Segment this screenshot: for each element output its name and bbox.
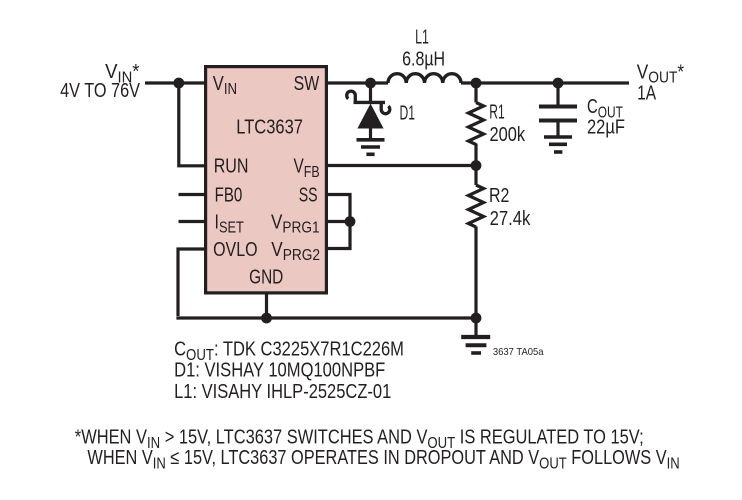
svg-text:L1: VISAHY IHLP-2525CZ-01: L1: VISAHY IHLP-2525CZ-01: [174, 380, 391, 403]
svg-text:RUN: RUN: [214, 155, 249, 177]
svg-text:FB0: FB0: [215, 183, 243, 206]
svg-text:1A: 1A: [637, 82, 656, 104]
svg-text:SS: SS: [299, 183, 318, 206]
svg-text:R2: R2: [489, 185, 509, 207]
svg-text:D1: D1: [400, 101, 415, 124]
svg-text:L1: L1: [415, 25, 429, 48]
svg-text:GND: GND: [249, 265, 283, 287]
svg-text:3637 TA05a: 3637 TA05a: [493, 347, 544, 358]
svg-text:OVLO: OVLO: [213, 238, 257, 260]
svg-text:27.4k: 27.4k: [490, 207, 531, 230]
svg-text:4V TO 76V: 4V TO 76V: [60, 78, 141, 101]
svg-text:D1: VISHAY 10MQ100NPBF: D1: VISHAY 10MQ100NPBF: [174, 358, 385, 381]
svg-text:LTC3637: LTC3637: [236, 115, 303, 138]
svg-text:SW: SW: [294, 72, 320, 94]
svg-text:22µF: 22µF: [587, 115, 625, 138]
svg-text:6.8µH: 6.8µH: [402, 48, 445, 70]
svg-text:R1: R1: [489, 102, 504, 124]
svg-text:200k: 200k: [490, 123, 526, 146]
